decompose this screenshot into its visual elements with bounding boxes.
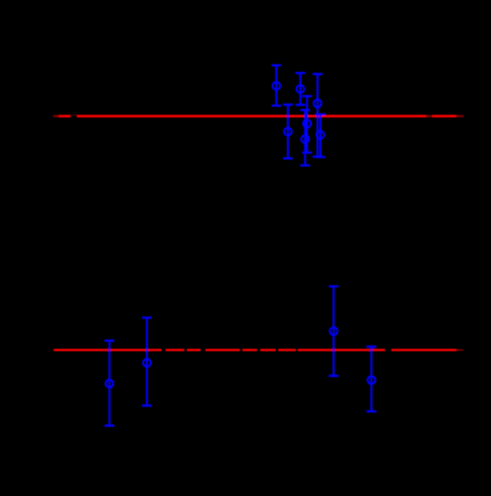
- top point P2: [295, 73, 305, 105]
- blue errorbar series: [105, 65, 377, 425]
- bottom red fit line dim tail: [457, 349, 464, 351]
- bottom point B3: [329, 286, 339, 376]
- bottom point B2: [142, 318, 152, 406]
- bottom point B1: [105, 341, 115, 426]
- top point P1: [271, 65, 281, 105]
- top red fit line: [59, 115, 457, 118]
- faint sliver over black marker gap: [71, 114, 77, 116]
- bottom point B4: [367, 347, 377, 412]
- top point P6: [300, 110, 310, 165]
- top point P7: [315, 114, 325, 157]
- bottom red fit line: [54, 349, 457, 351]
- top point P5: [302, 96, 312, 153]
- top point P4: [283, 105, 293, 159]
- top red fit line dim parts: [53, 115, 464, 117]
- top point P3: [313, 74, 323, 157]
